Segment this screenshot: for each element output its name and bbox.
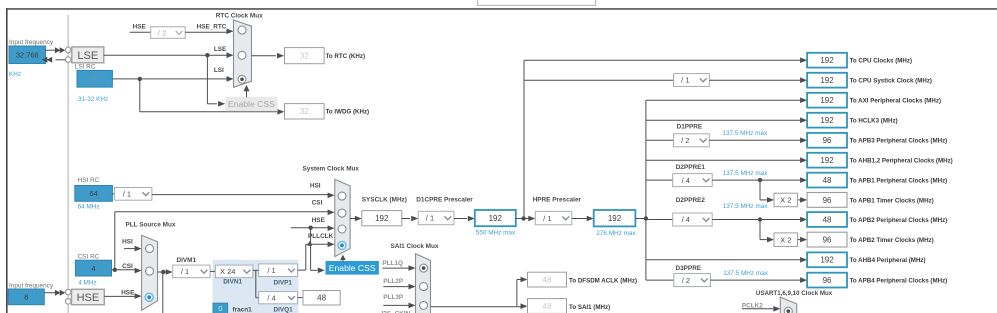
arrowhead into IWDG box <box>277 109 284 115</box>
divider DIVQ1 dropdown <box>259 292 298 304</box>
svg-text:To APB1 Timer Clocks (MHz): To APB1 Timer Clocks (MHz) <box>850 197 934 204</box>
svg-text:48: 48 <box>317 294 326 303</box>
svg-text:HSE_RTC: HSE_RTC <box>197 24 227 31</box>
output box CPU Systick value 192 <box>807 73 847 88</box>
panel PLL1 dividers background <box>213 260 299 313</box>
divider D3PPRE dropdown <box>674 274 711 287</box>
wire D1CPRE to D1 value box <box>454 218 467 220</box>
arrowhead into PLL mux HSE input <box>135 293 142 299</box>
wire HSE branch down to Enable CSS <box>310 228 312 271</box>
arrowhead into CPU Clocks box <box>800 57 807 63</box>
svg-text:D2PPRE1: D2PPRE1 <box>676 164 706 171</box>
output box APB2 Timer value 96 <box>807 232 847 247</box>
svg-text:96: 96 <box>823 196 832 205</box>
svg-text:RTC Clock Mux: RTC Clock Mux <box>216 12 263 19</box>
mux SAI1 Clock Mux <box>416 254 431 313</box>
svg-text:HSI: HSI <box>122 239 133 246</box>
pin circle OSC_OUT <box>65 299 71 305</box>
wire X2 to APB1 timer box <box>798 199 801 201</box>
radio PLL mux HSE selected <box>145 293 153 301</box>
pin circle OSC_IN <box>65 289 71 295</box>
svg-text:/ 4: / 4 <box>682 215 690 224</box>
wire HSE stub to System mux <box>291 227 328 229</box>
svg-text:SYSCLK (MHz): SYSCLK (MHz) <box>362 197 407 204</box>
divider HSI /1 dropdown <box>115 188 152 201</box>
radio System mux CSI <box>338 209 346 217</box>
wire row To CPU Systick left segment <box>524 79 674 81</box>
svg-text:4: 4 <box>91 264 95 273</box>
svg-text:550 MHz max: 550 MHz max <box>476 230 516 237</box>
mux RTC Clock Mux <box>234 20 252 87</box>
svg-text:32: 32 <box>300 52 309 61</box>
fracn1 value box 0 <box>213 303 228 313</box>
mux USART clock mux <box>780 297 796 313</box>
wire PLL2P stub <box>383 286 409 288</box>
oscillator CSI RC box <box>75 260 111 276</box>
arrowhead into APB2 timer box <box>800 237 807 243</box>
arrowhead PLLCLK riser up <box>307 241 312 246</box>
svg-text:D2PPRE2: D2PPRE2 <box>676 197 706 204</box>
wire PCLK2 stub <box>742 308 773 310</box>
svg-text:96: 96 <box>823 276 832 285</box>
wire LSE pin return <box>56 59 66 61</box>
arrowhead into PLL mux CSI input <box>135 268 142 274</box>
output box APB4 value 96 <box>807 273 847 288</box>
value box D1CPRE output 192 <box>475 210 516 226</box>
wire CSI net to PLL mux <box>112 269 136 271</box>
pin circle OSC32_IN <box>65 47 71 53</box>
wire DIVQ1 to 48 box <box>298 297 303 299</box>
arrowhead into HPRE dropdown <box>528 216 535 222</box>
svg-text:To IWDG (KHz): To IWDG (KHz) <box>326 108 370 115</box>
svg-text:192: 192 <box>820 256 834 265</box>
junction dot on HSE stub <box>308 226 312 230</box>
wire riser sys_d1cpre up to CPU rows <box>523 60 525 218</box>
divider D1CPRE dropdown <box>418 211 454 224</box>
svg-text:96: 96 <box>823 136 832 145</box>
svg-text:HSE: HSE <box>133 24 147 31</box>
svg-text:CSI: CSI <box>312 199 323 206</box>
arrowhead into RTC mux LSE input <box>227 52 234 58</box>
svg-text:X 2: X 2 <box>780 196 791 205</box>
svg-text:137.5 MHz max: 137.5 MHz max <box>723 270 769 277</box>
svg-text:DIVQ1: DIVQ1 <box>274 307 294 313</box>
junction dot on CSI net <box>113 268 117 272</box>
svg-text:4 MHz: 4 MHz <box>78 280 96 287</box>
wire APB1 timer branch <box>759 180 761 200</box>
svg-text:137.5 MHz max: 137.5 MHz max <box>723 170 769 177</box>
radio PLL mux CSI <box>146 267 154 275</box>
oscillator LSI RC box <box>77 70 112 87</box>
svg-text:PLL Source Mux: PLL Source Mux <box>126 222 176 229</box>
junction dot APB1 branch <box>758 178 762 182</box>
radio PLL mux HSI <box>146 245 154 253</box>
wire row APB1 right segment <box>712 179 800 181</box>
wire RTC mux output <box>252 55 277 57</box>
value box SYSCLK 192 <box>362 211 402 226</box>
svg-text:CSI RC: CSI RC <box>78 253 100 260</box>
wire SYSCLK to D1CPRE <box>402 218 410 220</box>
svg-text:Enable CSS: Enable CSS <box>329 263 376 273</box>
svg-text:Input frequency: Input frequency <box>9 39 54 46</box>
arrowhead into USART mux <box>773 306 780 312</box>
output box SAI1 value 48 <box>528 299 567 313</box>
svg-text:HSI RC: HSI RC <box>78 177 100 184</box>
arrowheads return to input box <box>42 57 48 63</box>
svg-text:To DFSDM ACLK (MHz): To DFSDM ACLK (MHz) <box>569 278 637 285</box>
arrowhead into APB4 box <box>800 277 807 283</box>
junction dot on LSI net <box>138 77 142 81</box>
wire arrow from Enable CSS up into RTC mux <box>246 91 248 97</box>
svg-text:LSI RC: LSI RC <box>75 64 96 71</box>
svg-text:192: 192 <box>820 56 834 65</box>
wire System mux output to SYSCLK <box>350 218 355 220</box>
svg-text:192: 192 <box>608 214 622 223</box>
wire SAI1 mux output <box>431 306 522 308</box>
arrowhead into SAI1 mux PLL1Q <box>409 265 416 271</box>
wire CSI branch up to System mux <box>114 212 116 270</box>
radio System mux PLLCLK selected <box>338 241 346 249</box>
arrowhead into APB2 box <box>800 217 807 223</box>
svg-text:32: 32 <box>300 107 309 116</box>
divider D1PPRE dropdown <box>674 134 710 147</box>
divider D2PPRE1 dropdown <box>673 174 713 187</box>
output box HCLK3 value 192 <box>807 113 847 128</box>
svg-text:32.768: 32.768 <box>16 50 39 59</box>
arrowhead into System mux HSI input <box>328 193 335 199</box>
wire PLL1Q stub <box>382 267 409 269</box>
svg-text:8: 8 <box>24 293 28 302</box>
output box PLL1Q value 48 <box>303 291 340 306</box>
svg-text:D3PPRE: D3PPRE <box>676 265 702 272</box>
arrowhead into SAI1 mux PLL2P <box>409 284 416 290</box>
svg-text:0: 0 <box>218 304 222 313</box>
svg-text:/ 1: / 1 <box>681 76 689 85</box>
divider HPRE dropdown <box>535 211 572 224</box>
junction dot PLL mux output <box>161 270 165 274</box>
svg-text:192: 192 <box>375 214 389 223</box>
svg-text:96: 96 <box>823 235 832 244</box>
svg-text:/ 1: / 1 <box>543 214 551 223</box>
svg-text:SAI1 Clock Mux: SAI1 Clock Mux <box>391 243 439 250</box>
svg-text:276 MHz max: 276 MHz max <box>596 230 636 237</box>
radio RTC mux LSI selected <box>238 75 246 83</box>
wire row To AHB1,2 <box>646 159 801 161</box>
wire APB2 timer branch <box>759 220 761 240</box>
wire HSI RC to divider <box>112 193 114 195</box>
wire HSI stub to PLL mux <box>124 248 135 250</box>
output box APB2 value 48 <box>807 212 847 227</box>
arrowhead into RTC Enable CSS <box>218 101 225 107</box>
wire HSE stub to RTC divider <box>130 31 151 33</box>
arrowhead into System mux CSI input <box>328 210 335 216</box>
output box To IWDG value 32 <box>285 104 325 119</box>
svg-text:HSE: HSE <box>121 290 135 297</box>
svg-text:192: 192 <box>820 76 834 85</box>
wire riser hclk down peripheral rows <box>645 100 647 280</box>
divider DIVM1 dropdown <box>173 265 210 278</box>
svg-text:To APB4 Peripheral Clocks (MHz: To APB4 Peripheral Clocks (MHz) <box>850 278 948 285</box>
arrowhead into X2 (APB2) <box>767 237 774 243</box>
divider D2PPRE2 dropdown <box>673 213 713 226</box>
svg-text:To APB1 Peripheral Clocks (MHz: To APB1 Peripheral Clocks (MHz) <box>850 178 948 185</box>
svg-text:To HCLK3 (MHz): To HCLK3 (MHz) <box>850 118 898 125</box>
radio RTC mux HSE_RTC <box>238 26 246 34</box>
output box APB1 Timer value 96 <box>807 193 847 208</box>
svg-text:fracn1: fracn1 <box>233 307 253 313</box>
wire row APB4 right segment <box>710 279 800 281</box>
output box AHB4 value 192 <box>807 252 847 267</box>
svg-text:LSE: LSE <box>214 46 227 53</box>
svg-text:To RTC (KHz): To RTC (KHz) <box>326 53 365 60</box>
divider CPU Systick /1 dropdown <box>674 74 710 87</box>
svg-text:To SAI1 (MHz): To SAI1 (MHz) <box>569 304 610 311</box>
svg-text:USART1,6,9,10 Clock Mux: USART1,6,9,10 Clock Mux <box>756 290 833 297</box>
multiplier X 2 box (APB2 timers) <box>774 233 798 247</box>
wire HSE_RTC to RTC mux <box>185 31 227 33</box>
svg-text:48: 48 <box>543 302 552 311</box>
svg-text:PLL1Q: PLL1Q <box>382 260 403 267</box>
svg-text:HSI: HSI <box>310 183 321 190</box>
svg-text:HSE: HSE <box>77 292 100 304</box>
output box To RTC value 32 <box>285 48 325 64</box>
oscillator HSI RC box <box>75 186 113 202</box>
button Enable CSS (RTC, disabled) <box>226 97 277 110</box>
svg-text:/ 2: / 2 <box>682 276 690 285</box>
svg-text:D1CPRE Prescaler: D1CPRE Prescaler <box>416 197 473 204</box>
wire row APB1 left segment <box>646 179 673 181</box>
svg-text:/ 2: / 2 <box>158 28 166 37</box>
wire arrow from Enable CSS up into System mux <box>342 260 344 262</box>
svg-text:64: 64 <box>89 189 97 198</box>
arrowhead into APB1 timer box <box>800 197 807 203</box>
svg-text:64 MHz: 64 MHz <box>78 203 100 210</box>
junction dot APB2 branch <box>758 217 762 221</box>
svg-text:Enable CSS: Enable CSS <box>228 99 275 109</box>
wire row APB3 right segment <box>709 139 800 141</box>
arrowhead into X2 (APB1) <box>767 197 774 203</box>
wire X2 to APB2 timer box <box>798 239 801 241</box>
radio SAI1 mux PLL1Q selected <box>420 264 428 272</box>
output box APB1 value 48 <box>807 173 847 188</box>
svg-text:CSI: CSI <box>122 263 133 270</box>
svg-text:PLLCLK: PLLCLK <box>308 233 334 240</box>
wire HCLK value to distribution riser <box>635 218 646 220</box>
svg-text:32: 32 <box>91 74 99 83</box>
output box CPU Clocks value 192 <box>807 53 847 68</box>
output box APB3 value 96 <box>807 133 847 148</box>
svg-text:31-32 KHz: 31-32 KHz <box>78 96 108 103</box>
arrowhead into RTC mux HSE input <box>227 29 234 35</box>
wire row APB3 left segment <box>646 139 674 141</box>
svg-text:D1PPRE: D1PPRE <box>677 123 703 130</box>
wire HSI net to System Clock Mux <box>152 194 328 196</box>
wire HSE net to PLL mux <box>104 295 135 297</box>
arrowhead into APB3 box <box>800 138 807 144</box>
mux System Clock Mux <box>335 179 350 256</box>
divider DIVP1 dropdown <box>259 264 298 277</box>
arrowhead into D1 value box <box>468 216 475 222</box>
svg-text:48: 48 <box>543 275 552 284</box>
arrowhead into SAI1 value box <box>521 303 528 309</box>
svg-text:To APB2 Peripheral Clocks (MHz: To APB2 Peripheral Clocks (MHz) <box>850 217 948 224</box>
wire DIVP1 output to PLLCLK riser <box>298 269 306 271</box>
svg-text:To APB3 Peripheral Clocks (MHz: To APB3 Peripheral Clocks (MHz) <box>850 138 948 145</box>
wire input to LSE pin <box>46 49 57 51</box>
arrowhead into SAI1 mux PLL3P <box>409 303 416 309</box>
arrowhead into PLL mux HSI input <box>135 246 142 252</box>
svg-text:/ 4: / 4 <box>267 293 275 302</box>
pin circle OSC32_OUT <box>65 57 71 63</box>
divider RTC HSE /2 dropdown <box>151 27 186 39</box>
wire PLL mux output to DIVM1 <box>158 271 168 273</box>
wire LSI branch down to IWDG <box>139 79 141 112</box>
wire row APB4 left segment <box>646 279 674 281</box>
svg-text:KHz: KHz <box>9 71 21 78</box>
svg-text:192: 192 <box>489 214 503 223</box>
multiplier X 2 box (APB1 timers) <box>774 193 798 207</box>
svg-text:X 2: X 2 <box>780 235 791 244</box>
wire LSE net <box>104 54 227 56</box>
svg-text:DIVN1: DIVN1 <box>223 279 242 286</box>
radio SAI1 mux PLL2P <box>420 283 428 291</box>
button Enable CSS (System, active) <box>326 262 378 275</box>
gray pin rail vertical line <box>67 15 69 313</box>
arrowhead into System mux PLLCLK input <box>328 242 335 248</box>
svg-text:To AHB1,2 Peripheral Clocks (M: To AHB1,2 Peripheral Clocks (MHz) <box>850 158 953 165</box>
input frequency value box 8 <box>8 289 44 305</box>
wire row To AXI <box>646 99 801 101</box>
svg-text:/ 1: / 1 <box>267 266 275 275</box>
svg-text:To CPU Clocks (MHz): To CPU Clocks (MHz) <box>850 58 912 65</box>
arrowhead into D1CPRE dropdown <box>411 216 418 222</box>
multiplier DIVN1 X 24 dropdown <box>215 265 253 278</box>
input frequency value box 32.768 <box>9 46 46 64</box>
svg-text:DIVM1: DIVM1 <box>177 257 197 264</box>
arrowhead into CPU Systick box <box>800 77 807 83</box>
svg-text:/ 4: / 4 <box>682 176 690 185</box>
svg-text:137.5 MHz max: 137.5 MHz max <box>723 203 769 210</box>
svg-text:DIVP1: DIVP1 <box>274 280 293 287</box>
svg-text:X 24: X 24 <box>220 267 235 276</box>
svg-text:/ 2: / 2 <box>681 136 689 145</box>
wire LSI net <box>112 78 227 80</box>
svg-text:48: 48 <box>823 215 832 224</box>
arrowhead into AHB4 box <box>800 257 807 263</box>
wire branch up to DFSDM <box>516 280 518 307</box>
svg-text:LSI: LSI <box>214 67 224 74</box>
wire row APB2 left segment <box>646 219 673 221</box>
diagram frame left border <box>6 8 8 313</box>
arrowhead into SYSCLK box <box>355 216 362 222</box>
svg-text:192: 192 <box>820 116 834 125</box>
arrowhead into DIVM1 <box>166 269 173 275</box>
svg-text:To AHB4 Peripheral (MHz): To AHB4 Peripheral (MHz) <box>850 257 926 264</box>
arrowheads into HSE pin <box>55 290 61 296</box>
junction dot sys_d1cpre <box>521 216 525 220</box>
arrowheads into LSE pin <box>55 47 61 53</box>
svg-text:HSE: HSE <box>312 217 326 224</box>
arrowhead into RTC mux LSI input <box>227 76 234 82</box>
svg-text:/ 1: / 1 <box>123 190 131 199</box>
junction dot hclk riser <box>644 216 648 220</box>
value box HPRE output 192 <box>594 210 636 226</box>
svg-text:System Clock Mux: System Clock Mux <box>303 165 360 172</box>
wire DIVM1 to DIVN1 <box>210 270 215 272</box>
oscillator HSE box <box>72 289 105 304</box>
wire PLL output branch down <box>162 272 164 313</box>
arrowhead into AXI box <box>800 97 807 103</box>
svg-text:PLL3P: PLL3P <box>383 294 404 301</box>
radio USART mux PCLK2 selected <box>784 307 792 313</box>
wire PLL3P stub <box>383 304 409 306</box>
wire row To CPU Systick right segment <box>709 79 800 81</box>
arrowhead into HCLK3 box <box>800 117 807 123</box>
radio System mux HSI <box>338 192 346 200</box>
radio SAI1 mux PLL3P <box>420 301 428 309</box>
output box AHB1,2 value 192 <box>807 153 847 168</box>
junction dot on LSE net <box>205 53 209 57</box>
arrowhead into RTC value box <box>277 53 284 59</box>
mux PLL Source Mux <box>142 235 158 310</box>
wire LSE branch down to Enable CSS <box>206 55 208 104</box>
wire PLLCLK stub to System mux <box>306 243 328 245</box>
svg-text:HPRE Prescaler: HPRE Prescaler <box>533 197 582 204</box>
wire row To HCLK3 <box>646 119 801 121</box>
wire D1 value to HPRE <box>516 218 529 220</box>
arrowhead into APB1 box <box>800 177 807 183</box>
arrowhead into DFSDM value box <box>521 277 528 283</box>
output box AXI value 192 <box>807 93 847 108</box>
arrowhead into Enable CSS (System) <box>318 268 325 274</box>
svg-text:To CPU Systick Clock (MHz): To CPU Systick Clock (MHz) <box>850 78 932 85</box>
diagram frame top border <box>6 8 997 10</box>
svg-text:137.5 MHz max: 137.5 MHz max <box>722 130 768 137</box>
svg-text:/ 1: / 1 <box>426 214 434 223</box>
wire DIVN1 to DIVP1 <box>253 269 259 271</box>
radio System mux HSE <box>338 225 346 233</box>
output box DFSDM value 48 <box>528 272 567 287</box>
tab above frame <box>478 0 596 5</box>
wire row APB2 right segment <box>712 219 800 221</box>
wire row To AHB4 <box>646 259 801 261</box>
svg-text:48: 48 <box>823 176 832 185</box>
svg-text:PLL2P: PLL2P <box>383 278 404 285</box>
svg-text:/ 1: / 1 <box>181 267 189 276</box>
svg-text:192: 192 <box>820 156 834 165</box>
radio RTC mux LSE <box>238 51 246 59</box>
oscillator LSE box <box>72 47 104 63</box>
svg-text:LSE: LSE <box>77 50 98 62</box>
arrowhead into HCLK value box <box>587 216 594 222</box>
arrowhead into System mux HSE input <box>328 225 335 231</box>
svg-text:To AXI Peripheral Clocks (MHz): To AXI Peripheral Clocks (MHz) <box>850 98 941 105</box>
wire DIVN1 branch down to DIVQ1 <box>255 270 257 297</box>
wire row To CPU Clocks <box>524 59 801 61</box>
arrowhead into AHB1,2 box <box>800 157 807 163</box>
wire HPRE to HCLK value box <box>572 218 587 220</box>
svg-text:To APB2 Timer Clocks (MHz): To APB2 Timer Clocks (MHz) <box>850 237 934 244</box>
svg-text:192: 192 <box>820 96 834 105</box>
wire input to HSE pin <box>44 292 56 294</box>
